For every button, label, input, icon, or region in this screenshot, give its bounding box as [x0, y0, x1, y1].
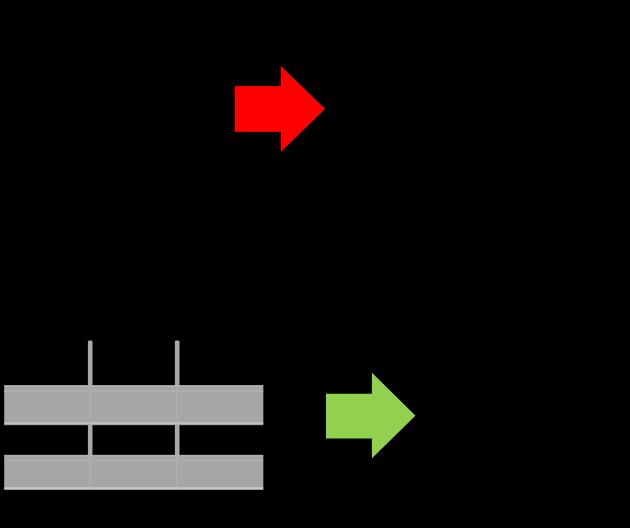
bottom rail seam right — [176, 455, 178, 490]
fence post right — [175, 341, 180, 490]
bottom rail bottom light line — [4, 487, 263, 489]
fence bottom rail — [4, 455, 263, 490]
top rail upper band — [4, 390, 263, 392]
fence top rail — [4, 385, 263, 425]
bottom rail upper band — [4, 459, 263, 461]
fence post left — [88, 341, 93, 490]
top rail top highlight — [4, 385, 263, 387]
bottom rail top highlight — [4, 455, 263, 457]
red arrow — [235, 66, 325, 152]
top rail bottom light line — [4, 422, 263, 424]
top rail seam right — [176, 385, 178, 425]
top rail seam left — [89, 385, 91, 425]
green arrow — [326, 373, 416, 459]
bottom rail seam left — [89, 455, 91, 490]
